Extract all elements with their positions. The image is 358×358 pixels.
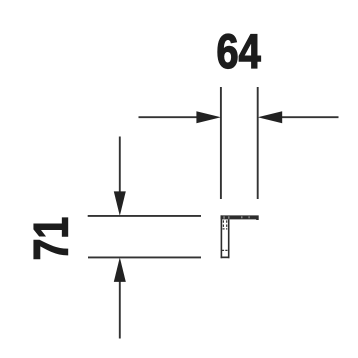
dimension line 64 left segment (139, 116, 199, 118)
extension line bottom of 71 (88, 256, 201, 258)
bracket bottom edge (221, 257, 230, 259)
bracket vertical flange right edge (228, 219, 230, 258)
hidden edge dashed line near bottom (222, 249, 228, 251)
dimension line 71 lower segment (119, 280, 121, 339)
hidden hole dashed bottom (223, 228, 228, 230)
arrowhead 64 right (points left) (258, 111, 283, 123)
arrowhead 71 lower (points up) (114, 257, 126, 282)
flange hidden-hole notch 4 (248, 216, 249, 218)
bracket horizontal flange (top bar) (221, 215, 259, 220)
flange hidden-hole notch 2 (228, 216, 229, 218)
extension line right of 64 (257, 87, 259, 199)
hidden hole dashed line right (226, 220, 228, 229)
bracket vertical flange left edge (221, 215, 223, 258)
dimension line 71 upper segment (119, 137, 121, 194)
extension line top of 71 (88, 215, 201, 217)
arrowhead 71 upper (points down) (114, 191, 126, 216)
dimension label 64 (218, 34, 261, 68)
dimension label 71 (rotated) (34, 218, 67, 259)
extension line left of 64 (220, 87, 222, 199)
hidden hole dashed line left (222, 220, 224, 229)
dimension line 64 right segment (281, 116, 339, 118)
flange hidden-hole notch 1 (223, 216, 225, 218)
arrowhead 64 left (points right) (196, 111, 221, 123)
flange hidden-hole notch 3 (241, 216, 243, 218)
